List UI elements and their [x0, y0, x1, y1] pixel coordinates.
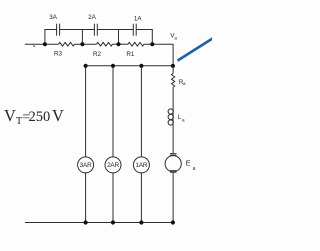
- wire Ea to bottom rail: [172, 172, 174, 222]
- wire main rail segment R3-R2: [75, 43, 97, 45]
- wire Ra to La: [172, 87, 174, 109]
- node junction R1 right on main rail: [150, 42, 154, 46]
- contact 3A: [57, 24, 60, 36]
- wire 1AR branch lower: [140, 173, 142, 223]
- wire contact-row stub at R2/R1 junction: [118, 30, 120, 45]
- node junction R3 left on main rail: [43, 42, 47, 46]
- svg-text:a: a: [182, 118, 185, 123]
- node junction bottom rail at armature: [171, 220, 175, 224]
- svg-text:1A: 1A: [134, 16, 143, 23]
- svg-text:2A: 2A: [88, 14, 97, 21]
- wire main rail segment R2-R1: [113, 43, 129, 45]
- resistor R1: [128, 42, 144, 46]
- relay coil 3AR: [78, 157, 94, 173]
- wire La to Ea: [172, 125, 174, 153]
- annotation pointer (blue) to node Va: [178, 38, 214, 60]
- wire bottom rail: [25, 222, 173, 224]
- svg-text:VT=250 V: VT=250 V: [4, 106, 64, 127]
- wire relay pick-up rail: [86, 65, 173, 67]
- wire main rail segment R1 to Va corner: [144, 43, 173, 45]
- machine Ea (armature with brushes): [165, 154, 181, 173]
- resistor R2: [97, 42, 113, 46]
- node Va junction on armature branch: [171, 64, 175, 68]
- svg-text:R3: R3: [54, 51, 63, 58]
- svg-text:E: E: [186, 161, 191, 168]
- wire armature branch from Va corner down to Ra: [172, 44, 174, 73]
- svg-text:3AR: 3AR: [80, 162, 92, 169]
- svg-text:a: a: [174, 36, 177, 41]
- node junction pick-up rail at 3AR: [84, 64, 88, 68]
- wire 2AR branch upper: [112, 66, 114, 157]
- svg-text:a: a: [183, 81, 186, 86]
- wire 3AR branch upper: [85, 66, 87, 157]
- wire contact-row left stub: [45, 30, 57, 45]
- wire 2AR branch lower: [112, 173, 114, 223]
- wire main rail segment left (supply + to R3): [25, 43, 59, 45]
- wire tick on supply lead: [33, 45, 35, 47]
- wire contact-row right stub: [136, 30, 152, 45]
- node junction bottom rail at 3AR: [84, 220, 88, 224]
- relay coil 2AR: [105, 157, 121, 173]
- wire contact-row between 3A and 2A: [60, 29, 95, 31]
- wire 3AR branch lower: [85, 173, 87, 223]
- relay coil 1AR: [133, 157, 149, 173]
- svg-text:2AR: 2AR: [107, 162, 119, 169]
- wire contact-row stub at R3/R2 junction: [81, 30, 83, 45]
- node junction pick-up rail at 1AR: [139, 64, 143, 68]
- node junction pick-up rail at 2AR: [111, 64, 115, 68]
- contact 1A: [133, 24, 136, 36]
- svg-text:R2: R2: [93, 51, 102, 58]
- node junction bottom rail at 1AR: [139, 220, 143, 224]
- svg-text:1AR: 1AR: [135, 162, 147, 169]
- svg-text:a: a: [193, 166, 196, 172]
- contact 2A: [94, 24, 97, 36]
- svg-text:R1: R1: [126, 51, 135, 58]
- svg-text:3A: 3A: [49, 14, 58, 21]
- wire contact-row between 2A and 1A: [97, 29, 133, 31]
- node junction R2/R1 on main rail: [116, 42, 120, 46]
- node junction bottom rail at 2AR: [111, 220, 115, 224]
- inductor La: [168, 109, 173, 126]
- wire 1AR branch upper: [140, 66, 142, 157]
- resistor R3: [59, 42, 75, 46]
- node junction R3/R2 on main rail: [80, 42, 84, 46]
- resistor Ra: [172, 73, 175, 87]
